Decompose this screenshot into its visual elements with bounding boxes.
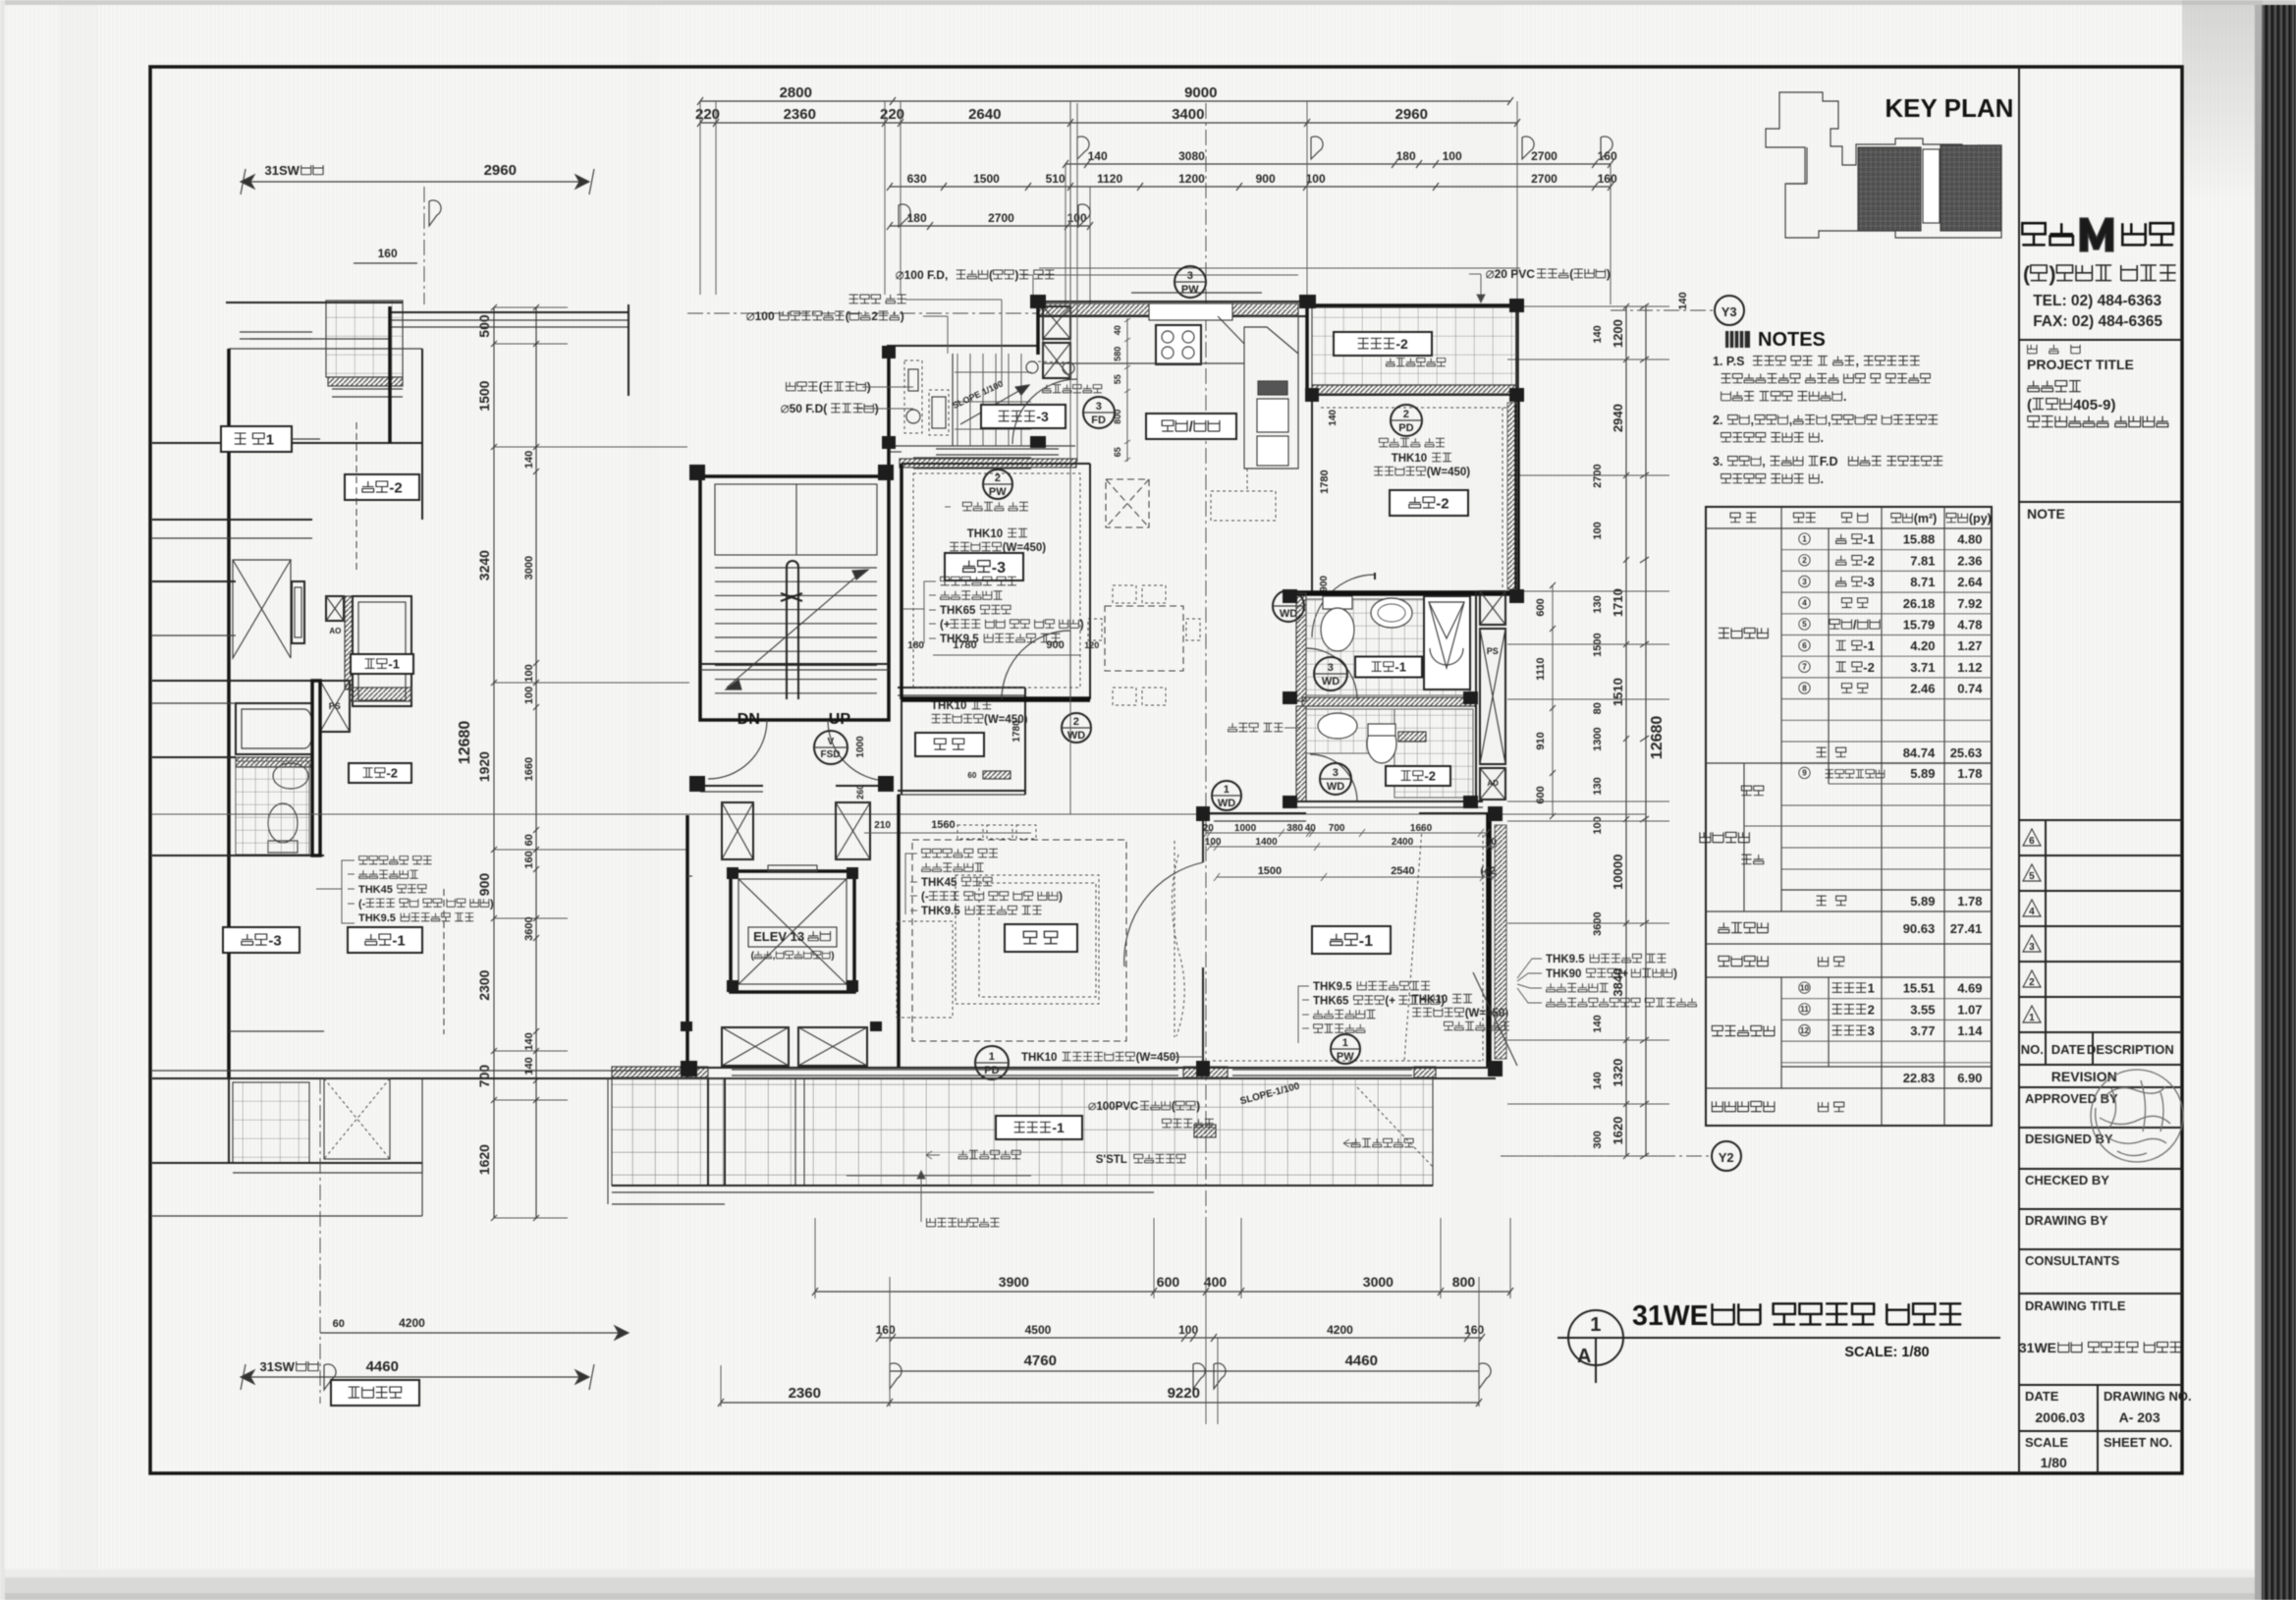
svg-text:3600: 3600 — [523, 916, 535, 940]
svg-text:65: 65 — [1113, 447, 1122, 457]
bedroom1 top wall w/ window — [1203, 812, 1306, 814]
svg-text:180: 180 — [1396, 149, 1416, 163]
svg-text:50 F.D(: 50 F.D( — [790, 402, 828, 415]
svg-text:PROJECT TITLE: PROJECT TITLE — [2027, 357, 2134, 372]
svg-text:140: 140 — [1328, 410, 1339, 426]
svg-text:): ) — [1014, 268, 1018, 282]
left dim col inner — [535, 307, 537, 1218]
svg-text:4460: 4460 — [1345, 1352, 1378, 1369]
svg-text:-1: -1 — [392, 932, 405, 949]
bubble 1/PD living — [975, 1046, 1009, 1079]
svg-text:2: 2 — [2029, 977, 2035, 988]
REVISION row — [2019, 1064, 2182, 1066]
NOTES header hatch icon — [1725, 331, 1750, 348]
svg-text:APPROVED BY: APPROVED BY — [2025, 1091, 2118, 1106]
svg-text:40: 40 — [1113, 325, 1122, 335]
svg-text:1.27: 1.27 — [1957, 638, 1982, 653]
svg-text:-2: -2 — [1424, 769, 1436, 784]
svg-text:3400: 3400 — [1172, 106, 1204, 123]
svg-text:60: 60 — [333, 1318, 345, 1330]
svg-text:1: 1 — [266, 431, 274, 448]
svg-text:PW: PW — [989, 486, 1007, 498]
svg-text:630: 630 — [907, 172, 927, 186]
bedroom2 curtain dashed — [1321, 407, 1507, 409]
svg-text:160: 160 — [1598, 172, 1617, 186]
svg-text:15.51: 15.51 — [1903, 981, 1936, 996]
kitchen stove — [1156, 325, 1201, 364]
left unit: bottom rooms X dashed — [324, 1078, 390, 1159]
svg-text:4200: 4200 — [1327, 1323, 1353, 1337]
right dim innermost small — [1592, 325, 1604, 343]
svg-text:1: 1 — [1224, 784, 1230, 796]
svg-text:400: 400 — [1204, 1274, 1228, 1290]
svg-text:FD: FD — [1091, 414, 1106, 426]
CONSULTANTS — [2019, 1248, 2182, 1250]
svg-text:160: 160 — [1464, 1323, 1484, 1337]
svg-text:12: 12 — [1800, 1026, 1810, 1035]
bath2 door arc — [1310, 754, 1357, 801]
svg-text:,: , — [1856, 355, 1859, 368]
left unit: 침실-1 label — [348, 927, 422, 953]
balcony-2 tile — [1312, 307, 1517, 385]
stair mid floor line — [700, 663, 889, 665]
bottom window bands — [732, 1069, 1178, 1071]
svg-text:1620: 1620 — [1611, 1117, 1625, 1145]
svg-text:3: 3 — [1802, 578, 1807, 586]
svg-text:PD: PD — [1398, 422, 1413, 434]
DRAWING TITLE — [2019, 1293, 2182, 1295]
living room dashed ceiling outer — [912, 840, 1126, 1041]
svg-text:-2: -2 — [1863, 553, 1875, 568]
entrance step hatch — [983, 771, 1011, 779]
svg-text:5.89: 5.89 — [1910, 894, 1935, 909]
svg-text:(W=450): (W=450) — [1427, 467, 1471, 478]
svg-text:1.07: 1.07 — [1957, 1002, 1982, 1017]
svg-text:SCALE: SCALE — [2025, 1435, 2068, 1450]
svg-text:2700: 2700 — [1531, 149, 1558, 163]
svg-text:-2: -2 — [1436, 495, 1449, 512]
svg-text:THK9.5: THK9.5 — [358, 912, 396, 924]
title block: logo section — [2019, 339, 2182, 341]
left unit: bottom dims 60/4200 — [320, 1332, 629, 1334]
right dim outer 12680 — [1645, 306, 1647, 1156]
bedroom2 walls — [1311, 395, 1313, 593]
balcony right part dashed diagonal — [1357, 1087, 1433, 1167]
table rows 전용면적 — [1781, 549, 1992, 551]
balcony texts — [958, 1150, 967, 1159]
kitchen upper eave lines — [1039, 267, 1520, 269]
kitchen floor vertical grid dashline — [1076, 103, 1078, 462]
svg-text:(+: (+ — [1385, 996, 1395, 1008]
corridor X shafts — [722, 802, 753, 859]
svg-text:90.63: 90.63 — [1903, 921, 1936, 936]
svg-text:(W=450): (W=450) — [1136, 1052, 1180, 1064]
svg-text:2540: 2540 — [1391, 865, 1414, 877]
svg-text:84.74: 84.74 — [1903, 745, 1936, 760]
bubble 2/PD — [1391, 405, 1422, 436]
living sofa dashes — [897, 921, 953, 1018]
left unit: top-left window band — [240, 331, 312, 333]
svg-text:22.83: 22.83 — [1903, 1071, 1936, 1085]
left unit: walls below bath — [152, 580, 236, 582]
kitchen right counter column — [1244, 316, 1298, 469]
left unit: wall x430 and y529 — [421, 349, 423, 520]
svg-text:FAX: 02) 484-6365: FAX: 02) 484-6365 — [2033, 313, 2162, 330]
bedroom3 window top — [913, 457, 1031, 459]
svg-text:1780: 1780 — [1011, 720, 1022, 743]
bedroom1 interior dims — [1207, 832, 1487, 834]
svg-text:20: 20 — [1203, 823, 1215, 834]
left unit: 침실-3 label — [223, 927, 300, 953]
left unit: hatched walls mid — [350, 688, 411, 701]
svg-text:1.12: 1.12 — [1957, 660, 1982, 675]
svg-text:210: 210 — [874, 820, 891, 831]
svg-text:2960: 2960 — [1395, 106, 1428, 123]
바닥면적 row — [1706, 910, 1992, 912]
svg-text:): ) — [1673, 968, 1677, 980]
bath1 tub — [1424, 596, 1470, 690]
key plan hatched block left — [1858, 147, 1921, 231]
table header — [1706, 527, 1992, 529]
svg-text:NOTE: NOTE — [2027, 506, 2065, 522]
svg-text:Y3: Y3 — [1722, 304, 1737, 319]
FD pipe circles — [1026, 361, 1038, 373]
svg-text:F.D: F.D — [1820, 455, 1838, 469]
right dim extension stubs — [1507, 305, 1669, 307]
svg-text:100: 100 — [1592, 816, 1604, 834]
stair bottom door arcs — [708, 720, 767, 779]
bedroom3 door arc — [1002, 631, 1070, 699]
right dim inner values — [1625, 306, 1627, 1156]
svg-text:3: 3 — [1096, 401, 1102, 413]
svg-text:140: 140 — [1592, 1015, 1604, 1032]
balcony-3 door arc — [1012, 379, 1077, 444]
left unit: AC slim box — [292, 581, 304, 643]
center section line vertical — [1205, 103, 1207, 1218]
svg-text:2640: 2640 — [968, 106, 1001, 123]
approval stamp — [2091, 1070, 2183, 1162]
svg-text:4760: 4760 — [1024, 1352, 1057, 1369]
svg-text:1: 1 — [2029, 1013, 2035, 1023]
balcony-2 label — [1334, 332, 1432, 356]
svg-text:15.88: 15.88 — [1903, 532, 1936, 547]
svg-text:1500: 1500 — [476, 380, 492, 411]
svg-text:180: 180 — [907, 640, 924, 651]
svg-text:0.74: 0.74 — [1957, 682, 1983, 696]
left unit: wardrobe triangle — [233, 560, 291, 658]
svg-text:1: 1 — [1590, 1314, 1601, 1336]
svg-text:THK10: THK10 — [1021, 1052, 1057, 1064]
svg-text:900: 900 — [1319, 576, 1330, 592]
dining table dashed — [1105, 606, 1183, 671]
svg-text:10000: 10000 — [1611, 855, 1625, 890]
svg-text:130: 130 — [1592, 777, 1604, 795]
bedroom1 door arc left wall — [1124, 862, 1203, 966]
left unit: AO shaft box — [326, 596, 344, 621]
bottom extension verticals — [814, 1218, 816, 1298]
left lobby walls — [685, 815, 689, 1078]
svg-text:.: . — [1821, 431, 1824, 445]
svg-text:20 PVC: 20 PVC — [1495, 267, 1536, 281]
svg-text:1000: 1000 — [1234, 823, 1257, 834]
svg-text:UP: UP — [829, 711, 851, 728]
living room dashed inner2 — [979, 883, 1096, 997]
svg-text:-1: -1 — [388, 657, 400, 672]
svg-text:2800: 2800 — [780, 84, 812, 101]
svg-text:7.81: 7.81 — [1910, 553, 1935, 568]
kitchen corner duct shafts — [1043, 306, 1070, 339]
vertical wall right of baths — [1475, 591, 1477, 807]
left unit: top window band — [390, 311, 629, 313]
svg-text:1500: 1500 — [1258, 865, 1282, 877]
key plan building outline — [1766, 92, 2001, 238]
svg-text:-3: -3 — [268, 932, 281, 949]
svg-text:31SW: 31SW — [260, 1359, 296, 1374]
svg-text:AO: AO — [329, 627, 341, 635]
svg-text:4.78: 4.78 — [1957, 618, 1982, 633]
balcony-1 continuous tile strip — [612, 1078, 1433, 1186]
title block column divider — [2018, 67, 2020, 1473]
DESIGNED BY — [2019, 1127, 2182, 1129]
svg-text:2: 2 — [1073, 716, 1079, 728]
bath2 label — [1386, 766, 1450, 786]
svg-text:WD: WD — [1218, 798, 1235, 809]
svg-text:,: , — [1789, 414, 1792, 427]
svg-text:2960: 2960 — [484, 162, 517, 179]
balcony-3 floor text — [1043, 385, 1052, 393]
svg-text:): ) — [1059, 892, 1063, 904]
svg-text:1660: 1660 — [1410, 823, 1433, 834]
SCALE / SHEET NO — [2019, 1430, 2182, 1432]
svg-text:2300: 2300 — [476, 969, 492, 1000]
bubble 3/PW top — [1175, 266, 1206, 298]
svg-text:100: 100 — [523, 664, 535, 682]
left unit: 침실-2 label — [345, 474, 419, 500]
bubble 2/WD bedroom2 — [1273, 590, 1304, 622]
svg-text:-1: -1 — [1359, 933, 1373, 950]
svg-text:THK10: THK10 — [931, 700, 966, 712]
svg-text:SHEET NO.: SHEET NO. — [2104, 1435, 2172, 1450]
APPROVED BY — [2019, 1086, 2182, 1088]
left unit: hatch band below tile — [328, 377, 403, 386]
svg-text:1300: 1300 — [1592, 727, 1604, 750]
left unit: core walls — [227, 349, 231, 1078]
svg-text:1560: 1560 — [931, 819, 955, 831]
svg-text:31WE: 31WE — [1632, 1300, 1709, 1332]
svg-text:-1: -1 — [1863, 638, 1875, 653]
svg-text:800: 800 — [1452, 1274, 1476, 1290]
bath2 walls — [1296, 706, 1306, 801]
svg-text:): ) — [1080, 620, 1084, 632]
svg-text:3000: 3000 — [523, 556, 535, 579]
stair arrow diagonal — [727, 570, 864, 688]
svg-text:-3: -3 — [1036, 409, 1049, 424]
svg-text:130: 130 — [1592, 595, 1604, 613]
svg-text:100: 100 — [1205, 837, 1222, 848]
svg-text:): ) — [490, 899, 494, 910]
svg-text:(py): (py) — [1969, 512, 1992, 525]
svg-text:1: 1 — [1342, 1037, 1348, 1049]
svg-text:,: , — [1762, 455, 1765, 469]
svg-text:800: 800 — [1113, 410, 1122, 424]
svg-text:2: 2 — [871, 309, 878, 323]
svg-text:THK65: THK65 — [940, 605, 976, 617]
left unit: vertical hatch band — [345, 596, 353, 690]
svg-text:3.77: 3.77 — [1910, 1023, 1935, 1038]
svg-text:2.64: 2.64 — [1957, 575, 1983, 589]
bubble 2/WD below bedroom3 — [1062, 713, 1091, 743]
bath2 small hatch step — [1398, 732, 1426, 742]
svg-text:1500: 1500 — [973, 172, 1000, 186]
bath2 toilet — [1367, 724, 1396, 763]
grid bubble Y3 — [1715, 296, 1744, 325]
svg-text:140: 140 — [1592, 325, 1604, 343]
balcony-3 vertical tile lines — [957, 354, 958, 446]
svg-text:.: . — [1821, 472, 1824, 486]
svg-text:): ) — [831, 951, 834, 962]
bath1 door arc — [1306, 648, 1357, 699]
svg-text:1: 1 — [1802, 534, 1807, 543]
svg-text:160: 160 — [378, 247, 398, 260]
svg-text:A- 203: A- 203 — [2119, 1409, 2160, 1425]
svg-text:100: 100 — [1306, 172, 1326, 186]
svg-text:S'STL: S'STL — [1096, 1154, 1127, 1166]
DATE / DRAWING NO — [2019, 1384, 2182, 1386]
svg-text:3.55: 3.55 — [1910, 1002, 1935, 1017]
svg-text:(+: (+ — [940, 620, 951, 632]
balcony drain hatch block — [1194, 1125, 1216, 1137]
svg-text:1780: 1780 — [1319, 469, 1331, 493]
svg-text:100: 100 — [755, 309, 775, 323]
svg-text:1500: 1500 — [1592, 633, 1604, 656]
balcony bottom edges — [612, 1185, 1433, 1186]
svg-text:8: 8 — [1802, 684, 1807, 692]
bath2 sink — [1318, 713, 1357, 739]
svg-text:3: 3 — [1328, 662, 1334, 674]
svg-text:500: 500 — [476, 314, 492, 338]
svg-text:1.78: 1.78 — [1957, 766, 1982, 781]
svg-text:2: 2 — [1802, 556, 1807, 565]
top flag symbols — [1077, 137, 1089, 159]
svg-text:2360: 2360 — [789, 1385, 821, 1402]
kitchen interior dim col — [1126, 318, 1128, 462]
svg-text:700: 700 — [476, 1065, 492, 1088]
svg-text:AD: AD — [1487, 779, 1499, 788]
utility boiler dashed — [929, 390, 949, 435]
top dims row5 180/2700/100 — [890, 225, 1090, 227]
balcony2 bottom hatch band — [1312, 385, 1517, 394]
svg-text:8.71: 8.71 — [1910, 575, 1935, 589]
left edge — [0, 0, 5, 1600]
svg-text:100: 100 — [1443, 149, 1462, 163]
left unit: bath2 toilet — [268, 803, 298, 843]
key plan hatched block right — [1941, 145, 2001, 231]
bedroom1 closet diagonal — [1473, 972, 1517, 1066]
svg-text:31WE: 31WE — [2019, 1340, 2056, 1355]
svg-text:1620: 1620 — [476, 1144, 492, 1175]
left unit: vertical centerline — [319, 1078, 321, 1404]
svg-text:580: 580 — [1113, 347, 1122, 361]
bubble 3/WD bath2 — [1320, 763, 1351, 795]
left dim col 12680 — [493, 307, 495, 1218]
balcony-3 slope arrow — [960, 385, 1029, 424]
svg-text:140: 140 — [1677, 292, 1689, 309]
svg-text:2.46: 2.46 — [1910, 682, 1935, 696]
svg-text:140: 140 — [523, 1057, 535, 1075]
svg-text:3.: 3. — [1713, 455, 1722, 469]
svg-text:V: V — [828, 737, 835, 747]
svg-text:2360: 2360 — [784, 106, 816, 123]
bubble 3/WD bath1 — [1314, 657, 1347, 690]
bedroom1 right wall hatch — [1495, 825, 1506, 1059]
svg-text:15.79: 15.79 — [1903, 618, 1936, 633]
svg-text:THK9.5: THK9.5 — [1313, 981, 1352, 993]
bath1 label — [1355, 657, 1422, 678]
svg-text:(: ( — [989, 268, 993, 282]
svg-text:1: 1 — [1868, 981, 1875, 996]
svg-text:(: ( — [819, 380, 823, 394]
svg-text:26.18: 26.18 — [1903, 596, 1936, 611]
entrance 현관 walls — [898, 687, 1025, 689]
svg-text:-2: -2 — [389, 479, 402, 496]
right small bath dims — [1535, 598, 1547, 616]
svg-text:140: 140 — [1088, 149, 1108, 163]
서비스면적 rows — [1706, 976, 1992, 978]
svg-text:(: ( — [1569, 267, 1573, 281]
utility + balcony3 block walls — [887, 345, 1038, 347]
balcony party walls crossing — [707, 1078, 709, 1186]
svg-text:5.89: 5.89 — [1910, 766, 1935, 781]
title block: project title section — [2019, 501, 2182, 503]
svg-text:THK10: THK10 — [1392, 453, 1427, 465]
svg-text:DRAWING NO.: DRAWING NO. — [2104, 1389, 2192, 1404]
svg-text:THK10: THK10 — [967, 528, 1003, 540]
svg-text:100 F.D,: 100 F.D, — [904, 268, 949, 282]
svg-text:1710: 1710 — [1611, 588, 1625, 617]
bubble 1/PW bedroom1 — [1331, 1034, 1360, 1064]
svg-text:PW: PW — [1181, 284, 1199, 296]
left unit: bath1 label — [351, 654, 413, 674]
bottom dims row1 3900/600/400/3000/800 — [815, 1291, 1510, 1293]
svg-text:900: 900 — [476, 873, 492, 897]
bottom dims row4 2360/9220 — [721, 1402, 1479, 1404]
svg-text:.: . — [1843, 390, 1846, 404]
drawing sheet border frame — [150, 67, 2182, 1473]
svg-text:DESCRIPTION: DESCRIPTION — [2087, 1042, 2174, 1057]
svg-text:3080: 3080 — [1178, 149, 1205, 163]
svg-text:4500: 4500 — [1025, 1323, 1052, 1337]
svg-text:7.92: 7.92 — [1957, 596, 1982, 611]
left top unit dim 31SW / 2960 — [241, 181, 589, 183]
svg-text:FSD: FSD — [821, 749, 841, 760]
PS AD shafts column — [1480, 591, 1505, 625]
bubble 2/PW bedroom3 — [983, 469, 1012, 499]
grid bubble Y2 — [1712, 1141, 1741, 1171]
bath2 tile floor — [1394, 709, 1473, 798]
top edge line — [0, 0, 2296, 5]
living left wall — [897, 795, 901, 1068]
물탈위 벽지 text — [1229, 723, 1237, 732]
svg-text:-3: -3 — [1863, 575, 1875, 589]
svg-text:-2: -2 — [1395, 336, 1408, 352]
svg-text:/: / — [1853, 618, 1857, 633]
bedroom2 texts — [1379, 438, 1388, 447]
svg-text:31SW: 31SW — [265, 163, 301, 178]
main unit: long grid line horizontal — [152, 813, 1646, 815]
kitchen counter edge — [1042, 316, 1044, 363]
svg-text:REVISION: REVISION — [2051, 1069, 2117, 1084]
svg-text:3240: 3240 — [476, 550, 492, 580]
